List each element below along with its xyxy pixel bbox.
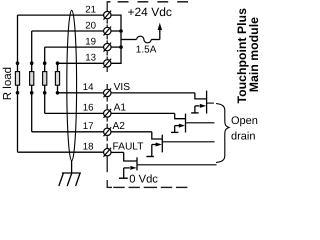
svg-text:drain: drain (231, 131, 255, 143)
fuse 1.5A wire (121, 39, 137, 41)
wire terminal 21 left (18, 14, 104, 16)
transistor Q3 A2 (open drain MOSFET) (111, 132, 215, 157)
module border top (dashed, y=1.8) (107, 1, 188, 3)
terminal 16 (104, 109, 112, 118)
wire column 2 vertical (31, 31, 33, 63)
resistor R load 4 (55, 63, 59, 93)
transistor Q4 FAULT (open drain MOSFET) (111, 152, 217, 178)
svg-text:Open: Open (231, 115, 258, 127)
terminal circles (104, 11, 112, 157)
wire terminal 19 left (45, 46, 104, 48)
wire 17 bottom horizontal (32, 131, 104, 133)
terminal 13 (104, 59, 112, 68)
svg-text:13: 13 (85, 53, 96, 64)
transistor Q2 A1 (open drain MOSFET) (111, 113, 214, 132)
wire terminal 13 left (58, 62, 104, 64)
terminal 19 (104, 43, 112, 52)
svg-text:Main module: Main module (247, 17, 261, 92)
wire 19 right (111, 46, 121, 48)
wire column 3 lower vertical to 16 (44, 93, 46, 114)
svg-text:19: 19 (85, 36, 96, 47)
svg-text:A2: A2 (113, 121, 126, 132)
+24Vdc arrow (159, 29, 161, 40)
svg-text:VIS: VIS (114, 82, 131, 93)
module border left (dashed, vertical at x=107.2) (106, 2, 108, 187)
node dots resistor terminals (16, 61, 60, 94)
svg-text:A1: A1 (114, 103, 127, 114)
resistor R load 1 (15, 63, 19, 93)
svg-text:+24 Vdc: +24 Vdc (128, 5, 172, 19)
svg-text:0 Vdc: 0 Vdc (129, 174, 158, 186)
fuse squiggle (137, 36, 152, 43)
wire column 3 vertical (44, 47, 46, 63)
screen drain wire (71, 161, 73, 174)
svg-text:14: 14 (83, 82, 94, 93)
terminal 14 (104, 88, 112, 97)
svg-text:FAULT: FAULT (113, 141, 144, 152)
transistor Q1 VIS (open drain MOSFET) (111, 91, 214, 114)
node junction 20 (119, 29, 123, 33)
wire 20 right (111, 30, 121, 32)
resistor R load 3 (43, 63, 47, 93)
svg-text:1.5A: 1.5A (136, 45, 157, 56)
wire column 1 lower vertical to 18 (17, 93, 19, 152)
resistor R load 2 (30, 63, 34, 93)
svg-text:R load: R load (2, 67, 14, 100)
wire column 1 vertical (17, 15, 19, 63)
terminal 17 (104, 127, 112, 136)
wire column 2 lower vertical to 17 (31, 93, 33, 132)
svg-text:21: 21 (85, 4, 96, 15)
wire terminal 20 left (32, 30, 104, 32)
cable screen ellipse (67, 10, 77, 160)
brace open drain (216, 104, 229, 163)
terminal 21 (104, 11, 112, 20)
terminal 18 (104, 148, 112, 157)
node junction 19 (119, 45, 123, 49)
wire 18 bottom horizontal (18, 151, 104, 153)
svg-text:20: 20 (85, 20, 96, 31)
svg-text:18: 18 (83, 142, 94, 153)
module border bottom (dashed, y=187.4) (107, 186, 188, 188)
terminal 20 (104, 27, 112, 36)
ground (chassis) (59, 173, 81, 186)
svg-text:16: 16 (83, 103, 94, 114)
wire 16 bottom horizontal (45, 112, 104, 114)
wire 14 bottom horizontal (58, 92, 104, 94)
bus right of terminals 21/20/19/13 (111, 15, 121, 63)
svg-text:17: 17 (83, 121, 94, 132)
